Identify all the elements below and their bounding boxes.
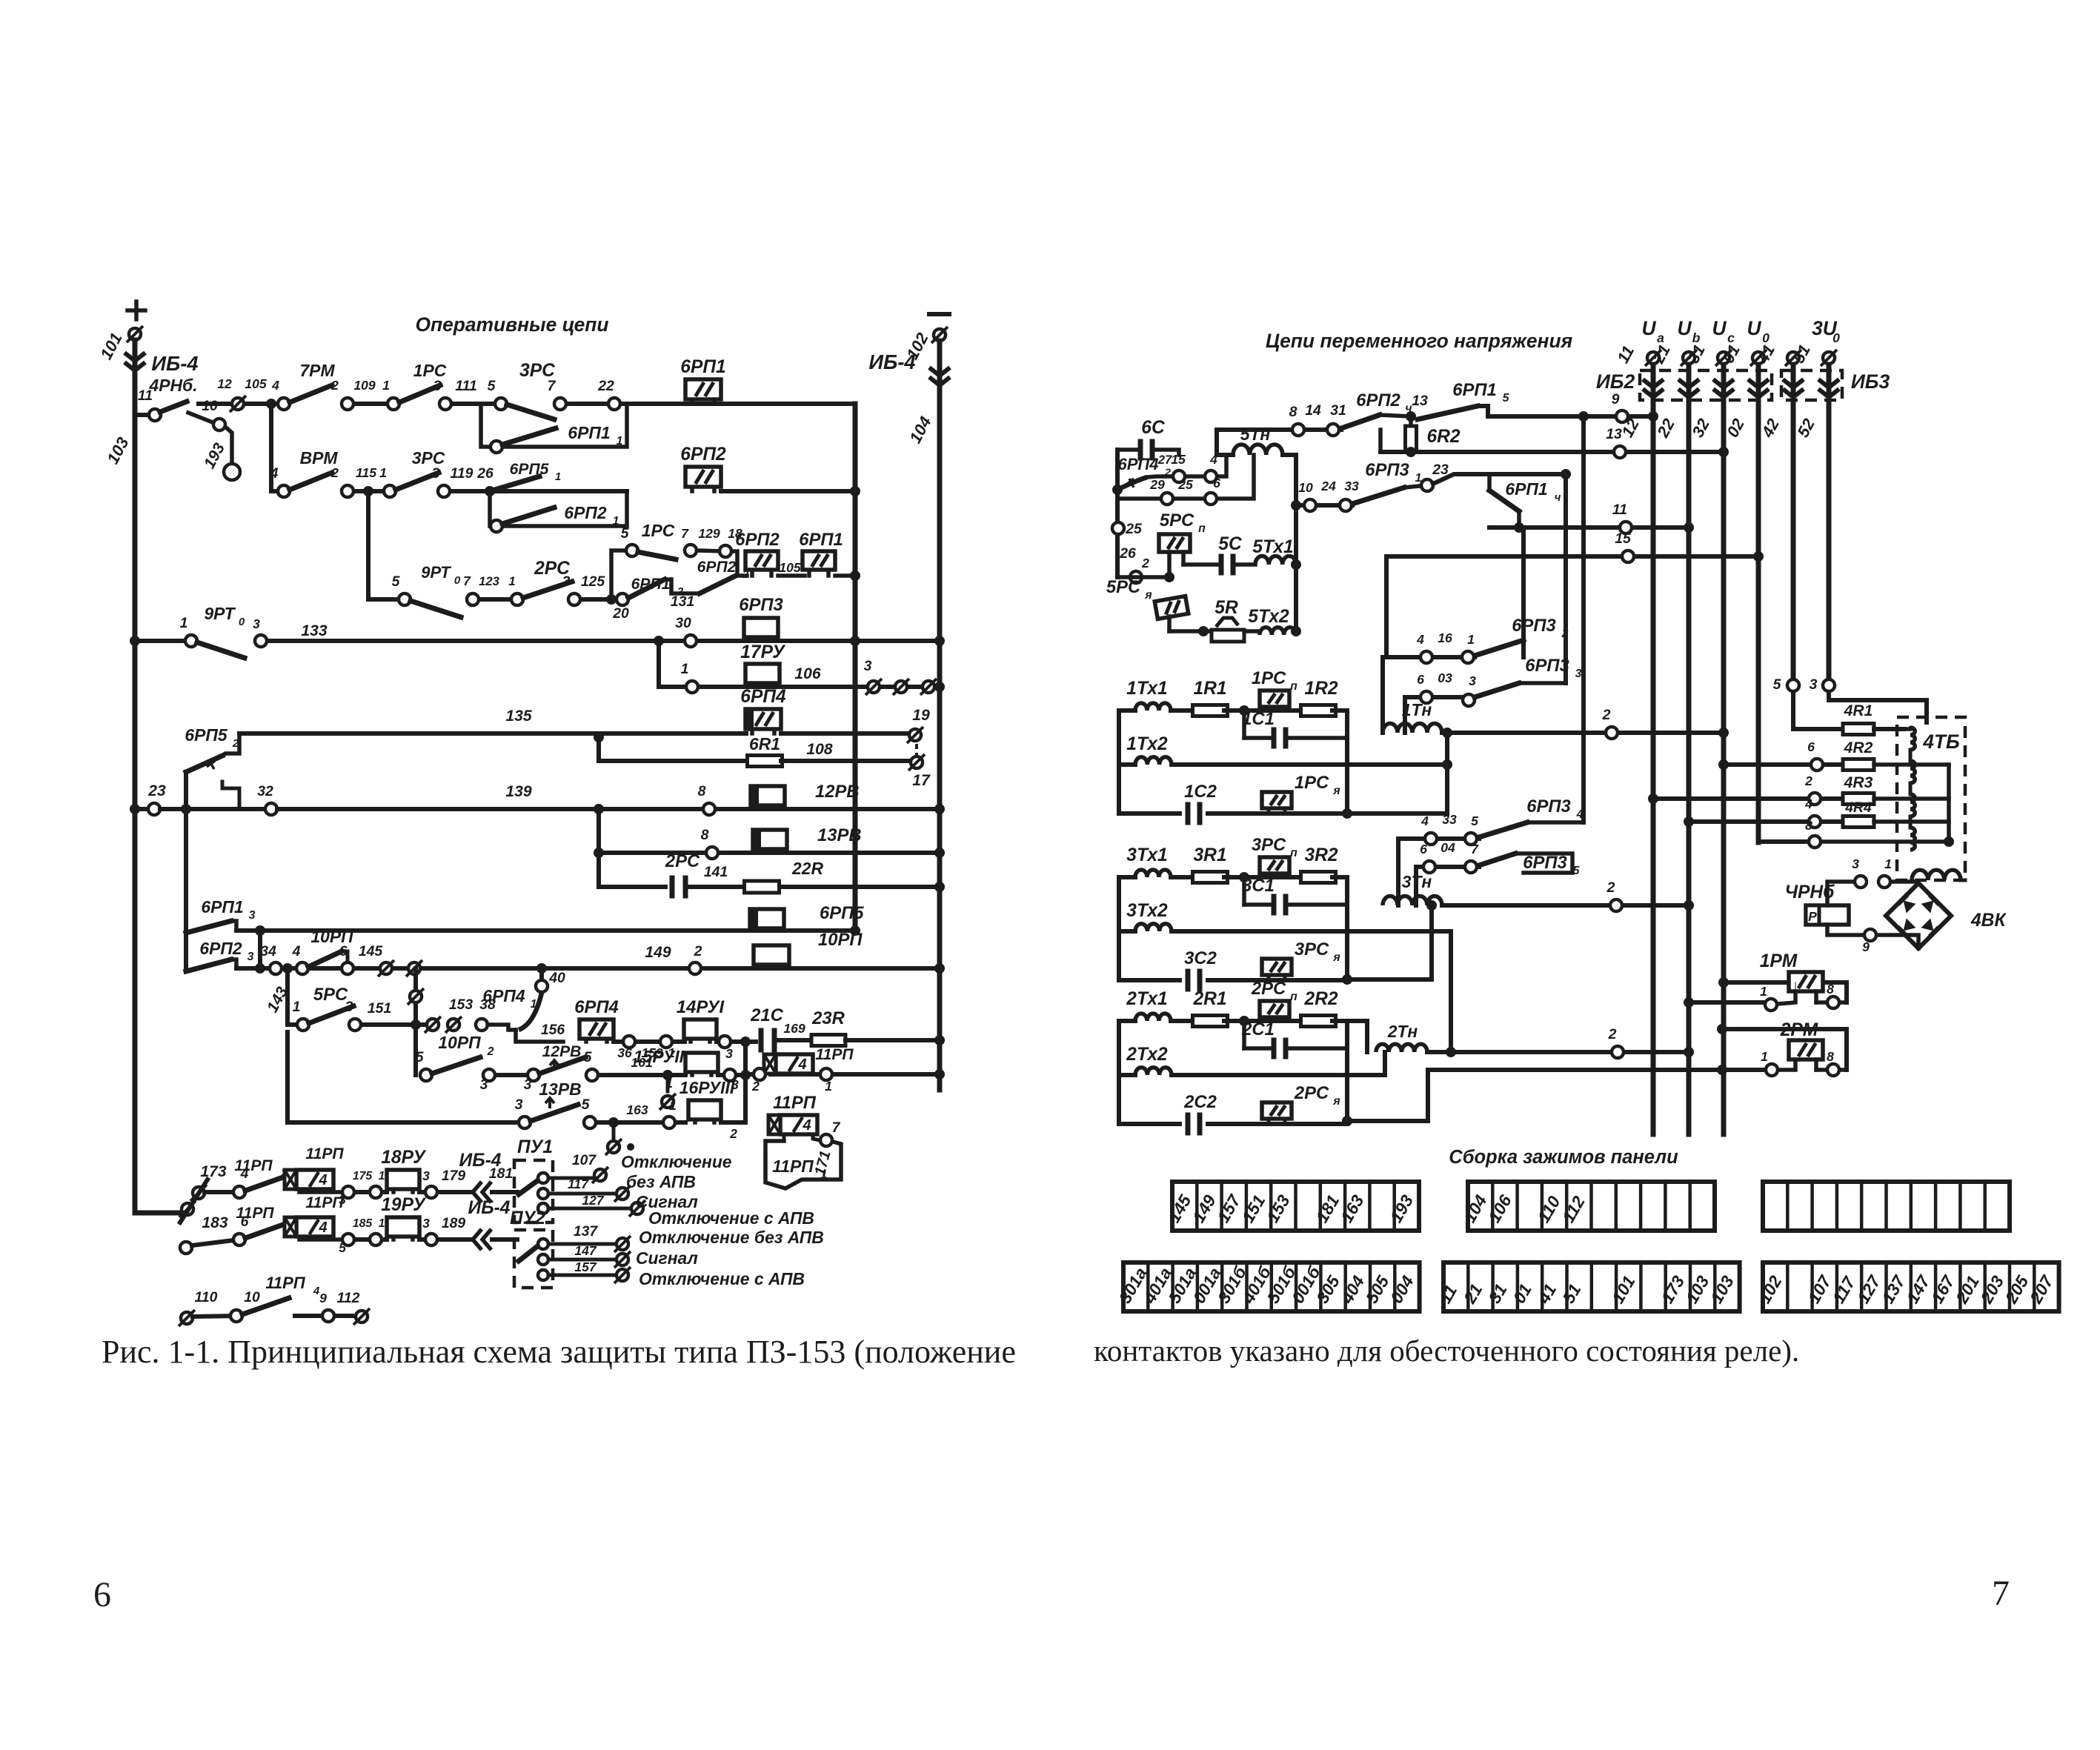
svg-text:1РМ: 1РМ: [1760, 951, 1798, 971]
relay coil 6РП1: [690, 399, 694, 404]
svg-text:3: 3: [422, 1216, 430, 1231]
svg-text:119: 119: [451, 465, 474, 482]
svg-text:40: 40: [548, 970, 565, 986]
block 1 right vertical: [1345, 711, 1349, 814]
svg-text:16: 16: [1438, 631, 1452, 645]
svg-text:4: 4: [271, 378, 279, 393]
svg-text:Отключение: Отключение: [621, 1152, 732, 1171]
resistor 22R: [745, 881, 780, 893]
relay coil 18РУ: [391, 1189, 396, 1192]
svg-text:контактов указано для обесточе: контактов указано для обесточенного сост…: [1094, 1334, 1799, 1368]
relay coil 6РП5: [754, 928, 759, 931]
svg-text:п: п: [1290, 991, 1297, 1003]
svg-text:6РП5: 6РП5: [510, 461, 549, 478]
contact 6РП1-5: [1418, 406, 1478, 419]
svg-text:U: U: [1712, 317, 1727, 339]
wire 1Тх2 to node: [1172, 762, 1447, 767]
svg-text:Отключение с АПВ: Отключение с АПВ: [648, 1208, 814, 1228]
capacitor 3С1 loop: [1242, 877, 1246, 905]
svg-text:5С: 5С: [1218, 534, 1243, 554]
inner vertical collector: [853, 404, 858, 931]
bus arrow 12: [1643, 389, 1664, 397]
inner right vertical of 4ТБ: [1947, 765, 1951, 842]
svg-text:6РП2: 6РП2: [697, 559, 737, 576]
branch vertical 139-13РВ: [597, 809, 601, 853]
svg-text:3: 3: [247, 951, 254, 963]
svg-text:157: 157: [574, 1260, 597, 1274]
svg-text:0: 0: [1832, 330, 1840, 345]
svg-text:1РС: 1РС: [413, 361, 447, 380]
svg-text:U: U: [1641, 317, 1656, 339]
contact 6РП1-3: [186, 921, 231, 933]
row 11 to bus Ub: [1489, 525, 1689, 530]
link up to contact 6РП4-1: [488, 1025, 516, 1030]
svg-text:3: 3: [249, 909, 256, 922]
svg-text:105: 105: [779, 560, 801, 575]
plus supply symbol: [127, 308, 145, 313]
svg-text:11РП: 11РП: [305, 1145, 344, 1162]
contact 6РП1-4: [1487, 474, 1492, 490]
bus terminal 11: [1647, 352, 1659, 364]
svg-text:189: 189: [442, 1215, 466, 1231]
svg-text:U: U: [1747, 317, 1761, 339]
inductor 2Тх2: [1118, 1074, 1120, 1076]
svg-text:Р: Р: [1808, 909, 1817, 924]
svg-text:13: 13: [1606, 426, 1622, 442]
contact 6РП2-3: [186, 959, 231, 971]
svg-text:12: 12: [217, 376, 232, 391]
terminal strip C: [1763, 1182, 2010, 1231]
svg-text:185: 185: [353, 1217, 373, 1230]
vertical node x1958 down to 2Тн row: [1449, 931, 1453, 1052]
svg-text:4R2: 4R2: [1844, 739, 1873, 756]
left vertical of 5-group: [1115, 450, 1120, 577]
terminal 2 115: [342, 485, 353, 497]
branch vertical 23-node down: [184, 809, 188, 971]
svg-text:7РМ: 7РМ: [299, 361, 335, 380]
relay 1РСя: [1262, 792, 1292, 808]
bottom elbow of left bus: [135, 1211, 184, 1216]
svg-text:без АПВ: без АПВ: [626, 1172, 696, 1191]
svg-text:3Тх1: 3Тх1: [1126, 845, 1167, 865]
terminal 1 - contact 3РС row2: [384, 485, 396, 497]
svg-text:3Тн: 3Тн: [1402, 872, 1432, 891]
vertical from 6РП3-3 up to row 13: [1564, 474, 1568, 683]
wire terminal 3 into 4ТБ: [1827, 692, 1831, 700]
svg-text:5: 5: [1503, 392, 1509, 405]
vertical connector x1006: [743, 1042, 748, 1122]
stub 32: [222, 782, 239, 809]
svg-text:6: 6: [1807, 739, 1815, 754]
contact 6РП2-2: [700, 576, 736, 593]
svg-text:5РС: 5РС: [313, 985, 348, 1005]
resistor 2R2: [1301, 1016, 1336, 1027]
svg-text:1: 1: [555, 470, 561, 483]
svg-text:1: 1: [681, 661, 689, 677]
svg-text:10: 10: [244, 1289, 260, 1305]
wire 105: [778, 573, 805, 578]
terminal 30: [685, 635, 697, 647]
arrow into ПУ1: [473, 1182, 482, 1202]
svg-text:34: 34: [260, 943, 276, 959]
row 6РП3-2: [1383, 655, 1475, 659]
svg-text:1: 1: [531, 998, 537, 1011]
svg-text:5Тх2: 5Тх2: [1248, 607, 1289, 627]
test link below row14: [608, 1117, 619, 1128]
wire row14 to connector: [721, 1120, 745, 1125]
svg-text:6РП5: 6РП5: [185, 725, 227, 745]
svg-text:1: 1: [180, 615, 188, 631]
row 10 24 33 with contact 6РП3-1: [1291, 500, 1301, 510]
svg-text:7: 7: [681, 526, 689, 541]
svg-text:3РС: 3РС: [1252, 835, 1286, 855]
svg-text:3: 3: [253, 616, 260, 631]
row ПУ2 wire: [180, 1242, 192, 1254]
inductor 3Тх2: [1118, 931, 1120, 932]
minus supply symbol: [929, 312, 949, 316]
terminal 17: [911, 756, 923, 768]
resistor 6R2 bypass: [1378, 430, 1383, 452]
terminal 7 latch: [813, 1134, 820, 1140]
terminal 5 - contact 10РП2: [420, 1069, 432, 1081]
bridge rectifier 4ВК: [1886, 883, 1951, 948]
svg-text:11РП: 11РП: [772, 1157, 814, 1176]
svg-text:2: 2: [1804, 773, 1812, 788]
svg-text:0: 0: [454, 574, 461, 587]
terminal 3 179: [419, 1190, 473, 1194]
svg-text:36: 36: [617, 1045, 632, 1060]
svg-text:4: 4: [318, 1172, 327, 1188]
svg-text:15: 15: [1615, 530, 1632, 547]
svg-text:6РП3: 6РП3: [739, 595, 782, 615]
svg-text:6РП5: 6РП5: [820, 903, 864, 923]
svg-text:33: 33: [1344, 479, 1359, 493]
svg-text:2С1: 2С1: [1241, 1019, 1275, 1039]
timer coil 12РВ: [755, 805, 760, 809]
svg-text:1: 1: [669, 1098, 677, 1113]
wire row1 left: [199, 402, 238, 406]
relay 4РНб: [1806, 905, 1849, 925]
capacitor 1С1 loop: [1242, 711, 1246, 738]
capacitor 2С2: [1119, 1122, 1180, 1126]
terminal strip A: [1172, 1182, 1419, 1231]
svg-text:п: п: [1198, 522, 1206, 535]
svg-text:1R1: 1R1: [1193, 679, 1226, 699]
dashed link 19-17: [915, 744, 918, 756]
svg-text:1Тх1: 1Тх1: [1126, 679, 1167, 699]
bus wire 41: [1791, 365, 1796, 679]
svg-text:6РП1: 6РП1: [799, 530, 843, 550]
capacitor 2РС: [599, 885, 665, 889]
terminal 7: [554, 398, 566, 410]
wire to terminal 9 and bus: [1478, 406, 1653, 416]
svg-text:3С1: 3С1: [1242, 876, 1275, 896]
svg-text:1: 1: [379, 1217, 385, 1230]
svg-text:1R2: 1R2: [1304, 679, 1338, 699]
svg-text:17РУ: 17РУ: [740, 642, 786, 662]
wire row2 to collector: [721, 489, 855, 493]
svg-text:5: 5: [1471, 814, 1478, 828]
right bus wire 104: [937, 341, 943, 1090]
bus terminal 41: [1787, 352, 1799, 364]
svg-text:04: 04: [1441, 840, 1455, 855]
svg-text:11РП: 11РП: [773, 1093, 817, 1113]
terminal 34: [270, 962, 282, 974]
terminal 4 - contact 10РП: [296, 962, 308, 974]
terminal 5 - contact 3РС: [495, 398, 507, 410]
test link below row13: [666, 1075, 670, 1091]
wire block3 bottom extension: [1347, 977, 1432, 982]
relay 2РСя: [1262, 1102, 1292, 1119]
svg-text:1РС: 1РС: [1252, 668, 1286, 688]
svg-text:2R2: 2R2: [1303, 989, 1338, 1009]
relay 5РСя tilted: [1154, 596, 1189, 619]
right vertical of 5-group: [1294, 455, 1298, 631]
terminal 12 105: [232, 398, 244, 410]
selector ПУ1 dashed box: [514, 1160, 553, 1222]
resistor 4R1: [1843, 724, 1874, 735]
branch vertical row4-row5: [657, 641, 661, 687]
terminals 3 1 above bridge: [1855, 876, 1867, 888]
bypass loop with contact 6РП1-1: [481, 405, 627, 447]
svg-text:18РУ: 18РУ: [381, 1148, 427, 1168]
timer coil 13РВ: [757, 849, 762, 853]
svg-text:я: я: [1332, 951, 1340, 964]
svg-text:153: 153: [449, 997, 474, 1013]
terminal strip B: [1468, 1182, 1715, 1231]
terminal 1 - contact 5РС: [288, 1022, 303, 1027]
relay coil 6РП2 second: [750, 570, 754, 576]
svg-text:183: 183: [202, 1214, 227, 1231]
branch from row1: [269, 404, 273, 491]
wire to terminal 19: [781, 731, 915, 736]
svg-text:6РП3: 6РП3: [1525, 656, 1569, 676]
svg-text:1РС: 1РС: [1295, 773, 1329, 793]
svg-text:2РМ: 2РМ: [1780, 1020, 1818, 1040]
relay coil 17РУ: [699, 685, 940, 689]
transformer 4ТБ winding 1: [1910, 728, 1915, 750]
svg-text:5: 5: [392, 573, 401, 590]
wire to 32: [160, 807, 271, 811]
bus terminal 01: [1752, 352, 1764, 364]
contact 11РП-1 latch frame: [765, 1141, 841, 1188]
svg-text:15: 15: [1171, 452, 1186, 467]
svg-text:11: 11: [1612, 502, 1627, 518]
svg-text:163: 163: [626, 1102, 648, 1117]
svg-text:1: 1: [1760, 984, 1767, 999]
resistor 23R: [811, 1035, 845, 1046]
svg-text:32: 32: [257, 783, 273, 799]
svg-text:3: 3: [524, 1077, 532, 1093]
wire to test links: [362, 1022, 416, 1027]
relay element 11РП on row ПУ2: [299, 1237, 341, 1242]
transformer 4ТБ winding 4: [1910, 828, 1915, 850]
svg-text:1: 1: [825, 1079, 832, 1094]
relay 2РМ block: [1722, 1029, 1847, 1070]
svg-text:2R1: 2R1: [1192, 989, 1226, 1009]
ПУ1 output 107: [548, 1177, 593, 1180]
relay coil 11РП: [743, 1072, 748, 1077]
svg-text:4: 4: [797, 1057, 806, 1073]
vertical x1927 up from block2 bottom: [1426, 1070, 1430, 1121]
svg-text:3: 3: [1852, 856, 1859, 871]
selector ПУ2 dashed box: [514, 1230, 553, 1288]
svg-text:6РП2: 6РП2: [1356, 390, 1400, 410]
svg-text:5: 5: [621, 525, 630, 542]
transformer 4ТБ winding 2: [1910, 761, 1915, 783]
svg-text:ПУ1: ПУ1: [517, 1137, 553, 1157]
svg-text:2С2: 2С2: [1183, 1092, 1217, 1112]
svg-text:3Тх2: 3Тх2: [1126, 901, 1168, 921]
arrow into ПУ2: [473, 1229, 482, 1250]
wire row3 start: [368, 597, 405, 602]
svg-text:8: 8: [1289, 404, 1297, 420]
terminal 25 on left vertical: [1112, 522, 1124, 534]
svg-text:112: 112: [337, 1290, 360, 1306]
svg-text:5РС: 5РС: [1160, 510, 1194, 530]
svg-text:Отключение без АПВ: Отключение без АПВ: [639, 1228, 824, 1247]
svg-text:6РП3: 6РП3: [1523, 853, 1566, 873]
svg-text:27: 27: [1157, 453, 1172, 467]
bottom wire with 5R and 5Тх2: [1169, 629, 1212, 633]
row 6 with 4R2: [1724, 762, 1844, 767]
svg-text:7: 7: [548, 378, 556, 394]
svg-text:6: 6: [1417, 672, 1424, 687]
branch vertical 40: [539, 968, 544, 986]
svg-text:3: 3: [433, 378, 442, 394]
terminal 1 - contact 1РС: [388, 398, 399, 410]
transformer 4ТБ winding 3: [1910, 794, 1915, 816]
ПУ2 switch blade: [519, 1242, 543, 1261]
svg-text:6РП1: 6РП1: [1505, 479, 1547, 499]
svg-text:4: 4: [1416, 632, 1424, 647]
svg-text:7: 7: [463, 573, 471, 588]
ПУ2 output 157: [548, 1274, 615, 1277]
terminal 3 133: [255, 635, 267, 647]
long wire 133: [268, 639, 691, 643]
inductor 5Тн: [1233, 445, 1283, 455]
svg-text:3: 3: [725, 1046, 733, 1061]
ПУ2 output 137: [548, 1242, 615, 1246]
relay coil 6РП1 second: [807, 570, 811, 576]
terminal strip E: [1443, 1262, 1740, 1311]
row 13 to bus Uc: [1380, 450, 1724, 454]
svg-text:1: 1: [1884, 856, 1892, 871]
svg-text:1РС: 1РС: [642, 521, 675, 540]
upper branch of row3 with contact 1РС: [611, 550, 632, 599]
svg-text:5: 5: [416, 1049, 425, 1065]
branch vertical 135-108: [597, 737, 601, 761]
svg-text:4R1: 4R1: [1844, 702, 1873, 719]
svg-text:2: 2: [330, 465, 339, 480]
svg-text:ИБ3: ИБ3: [1851, 370, 1890, 393]
wire block2 bottom extension: [1347, 1119, 1428, 1123]
svg-text:110: 110: [195, 1289, 218, 1305]
long wire 6РП5 row: [236, 928, 855, 933]
svg-text:1: 1: [382, 378, 390, 393]
contact ВРМ: [290, 473, 332, 490]
left bus wire 103: [133, 340, 138, 1213]
block 2 left vertical: [1117, 1021, 1121, 1124]
row 15 to bus U0: [1386, 554, 1758, 559]
terminal 101: [129, 328, 141, 340]
bottom wire of 5РС node: [1117, 575, 1169, 579]
capacitor 2С1 loop: [1242, 1021, 1246, 1048]
svg-text:125: 125: [581, 573, 606, 590]
wire 3Тн to bus with terminal 2: [1442, 903, 1689, 908]
wire 2Тх2 extension: [1172, 1073, 1385, 1077]
wire 1Тн to bus with terminal 2: [1442, 731, 1724, 735]
svg-text:6РП1: 6РП1: [201, 897, 243, 916]
svg-text:10РП: 10РП: [818, 930, 863, 950]
svg-text:9РТ: 9РТ: [421, 563, 451, 582]
svg-text:19РУ: 19РУ: [381, 1195, 427, 1215]
relay 1РМ block: [1724, 982, 1847, 1002]
svg-text:3: 3: [1469, 673, 1476, 688]
ПУ1 switch blade: [519, 1177, 543, 1194]
row 27 15 4: [1147, 455, 1226, 477]
contact 6РП5-2 and wire 135: [184, 772, 188, 809]
bus wire 51: [1827, 365, 1832, 679]
svg-text:2: 2: [694, 943, 702, 959]
svg-text:123: 123: [479, 574, 500, 588]
svg-text:6РП3: 6РП3: [1365, 460, 1409, 480]
svg-text:147: 147: [574, 1243, 597, 1258]
svg-text:9: 9: [1862, 939, 1870, 954]
terminal 1 - contact 2РС: [511, 593, 523, 605]
bus arrow 52: [1818, 389, 1839, 397]
svg-text:5: 5: [584, 1049, 593, 1065]
terminal 3 after 14РУI: [717, 1039, 756, 1044]
svg-text:ИБ2: ИБ2: [1596, 370, 1635, 393]
svg-text:26: 26: [476, 465, 494, 482]
svg-text:2Тх2: 2Тх2: [1126, 1045, 1168, 1065]
terminal 5 - contact 9РТ0: [399, 593, 411, 605]
svg-text:1С1: 1С1: [1242, 709, 1275, 729]
svg-text:151: 151: [368, 1000, 391, 1017]
svg-text:9: 9: [319, 1291, 327, 1305]
capacitor 5С and inductor 5Тх1: [1183, 562, 1217, 567]
svg-text:16РУІІІ: 16РУІІІ: [679, 1078, 735, 1097]
svg-text:25: 25: [1177, 477, 1193, 492]
svg-text:11РП: 11РП: [234, 1157, 273, 1174]
winding junction wires: [1909, 750, 1913, 761]
svg-text:13РВ: 13РВ: [817, 825, 862, 845]
svg-text:2РС: 2РС: [1294, 1083, 1329, 1103]
relay 3РСп: [1260, 857, 1289, 874]
contact 7РМ: [290, 385, 332, 402]
svg-text:11РП: 11РП: [815, 1046, 854, 1063]
svg-text:7: 7: [1992, 1574, 2010, 1613]
node 23 on bus: [130, 804, 140, 814]
svg-text:4R4: 4R4: [1844, 799, 1872, 816]
svg-text:ИБ-4: ИБ-4: [151, 352, 198, 375]
terminal 6 145: [342, 962, 353, 974]
svg-text:6: 6: [339, 943, 348, 959]
svg-text:8: 8: [1827, 982, 1834, 997]
svg-text:ч: ч: [1555, 491, 1561, 504]
svg-text:5: 5: [339, 1240, 346, 1255]
svg-text:3: 3: [432, 465, 440, 482]
wire 2Тн to bus with terminal 2: [1427, 1050, 1689, 1054]
svg-text:14РУІ: 14РУІ: [677, 997, 725, 1017]
terminal 20 - contact 6РП1-2: [617, 593, 628, 605]
svg-text:ИБ-4: ИБ-4: [468, 1198, 511, 1218]
relay element 11РП on row ПУ1: [299, 1190, 341, 1194]
bus terminal 31: [1718, 352, 1729, 364]
svg-text:4РНб.: 4РНб.: [148, 376, 197, 395]
block 1 left vertical: [1117, 711, 1121, 814]
